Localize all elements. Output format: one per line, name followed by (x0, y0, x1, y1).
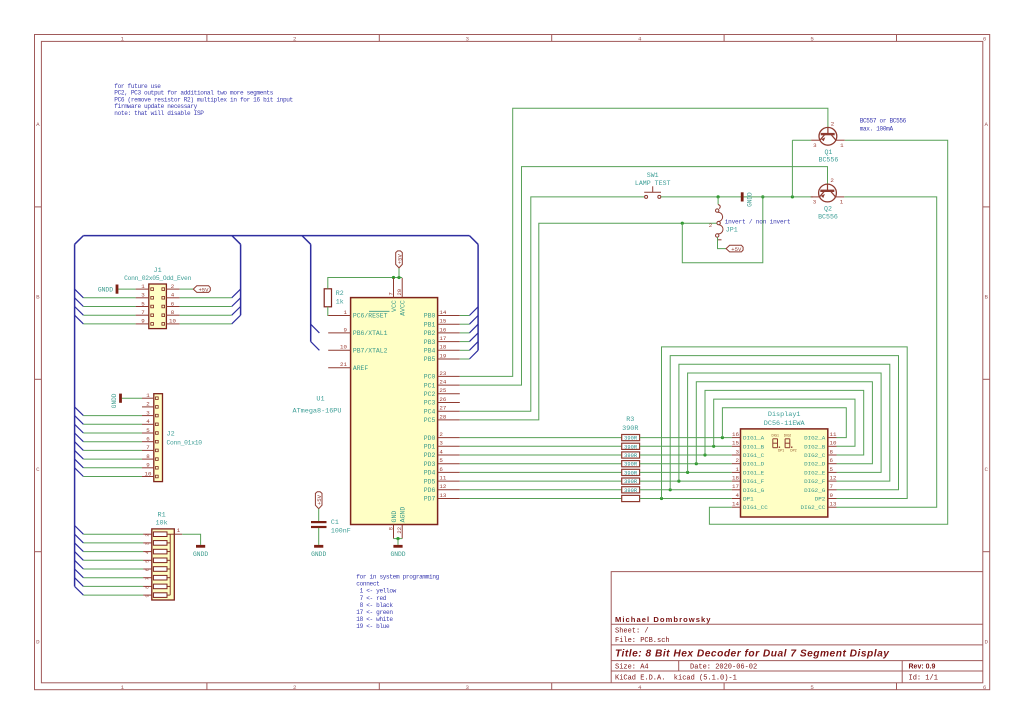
svg-text:3: 3 (141, 292, 145, 299)
svg-text:DIG2_G: DIG2_G (804, 487, 826, 494)
svg-text:18 <- white: 18 <- white (356, 616, 393, 623)
svg-text:PB1: PB1 (424, 321, 436, 328)
svg-text:8: 8 (146, 453, 150, 460)
svg-text:390R: 390R (624, 488, 638, 494)
svg-text:390R: 390R (624, 444, 638, 450)
svg-text:+5V: +5V (198, 286, 209, 293)
svg-text:4: 4 (638, 36, 642, 43)
svg-text:DP1: DP1 (778, 449, 784, 453)
svg-text:6: 6 (830, 457, 834, 464)
svg-text:Size: A4: Size: A4 (615, 663, 649, 671)
svg-text:12: 12 (439, 483, 446, 490)
svg-text:AVCC: AVCC (400, 300, 407, 316)
svg-text:9: 9 (830, 492, 834, 499)
svg-text:PB6/XTAL1: PB6/XTAL1 (353, 330, 388, 337)
svg-text:Conn_01x10: Conn_01x10 (167, 439, 203, 446)
svg-text:19 <- blue: 19 <- blue (356, 623, 390, 630)
svg-text:1: 1 (177, 527, 181, 534)
svg-text:26: 26 (439, 396, 446, 403)
svg-text:GNDD: GNDD (311, 551, 326, 558)
svg-text:390R: 390R (624, 479, 638, 485)
svg-text:28: 28 (439, 413, 446, 420)
svg-text:PB3: PB3 (424, 339, 436, 346)
svg-text:J1: J1 (154, 267, 162, 275)
svg-text:8: 8 (387, 527, 394, 530)
svg-text:3: 3 (813, 199, 817, 206)
svg-text:DIG2_F: DIG2_F (804, 478, 826, 485)
svg-text:R3: R3 (626, 416, 634, 424)
svg-text:24: 24 (439, 379, 446, 386)
svg-text:7: 7 (145, 577, 151, 580)
svg-text:7: 7 (830, 483, 834, 490)
svg-text:4: 4 (439, 448, 443, 455)
svg-text:10: 10 (169, 318, 176, 325)
svg-text:10k: 10k (155, 520, 167, 528)
svg-text:9: 9 (146, 462, 150, 469)
svg-text:5: 5 (810, 36, 814, 43)
svg-text:PB5: PB5 (424, 356, 436, 363)
svg-text:22: 22 (396, 527, 403, 534)
svg-text:2: 2 (293, 36, 297, 43)
svg-text:PC3: PC3 (424, 400, 436, 407)
svg-text:11: 11 (830, 431, 837, 438)
svg-text:Conn_02x05_Odd_Even: Conn_02x05_Odd_Even (124, 275, 192, 282)
svg-text:17 <- green: 17 <- green (356, 609, 393, 616)
svg-text:PB4: PB4 (424, 348, 436, 355)
svg-text:DIG1_C: DIG1_C (743, 452, 765, 459)
svg-text:Q2: Q2 (824, 206, 832, 213)
svg-text:SW1: SW1 (647, 172, 659, 179)
svg-text:10: 10 (145, 470, 152, 477)
svg-text:2: 2 (146, 401, 150, 408)
svg-text:C: C (984, 466, 988, 473)
svg-text:PB7/XTAL2: PB7/XTAL2 (353, 348, 388, 355)
svg-text:6: 6 (439, 466, 443, 473)
svg-text:PD7: PD7 (424, 496, 436, 503)
svg-text:9: 9 (145, 594, 151, 597)
svg-text:DIG2_CC: DIG2_CC (801, 504, 826, 511)
svg-text:DIG1_D: DIG1_D (743, 461, 765, 468)
svg-text:+5V: +5V (316, 494, 323, 505)
svg-text:DP2: DP2 (815, 496, 826, 503)
svg-text:PB0: PB0 (424, 313, 436, 320)
svg-text:AGND: AGND (400, 507, 407, 523)
svg-text:18: 18 (439, 344, 446, 351)
svg-text:Date: 2020-06-02: Date: 2020-06-02 (690, 663, 757, 671)
svg-text:1: 1 (736, 466, 740, 473)
svg-text:DIG2_C: DIG2_C (804, 452, 826, 459)
svg-text:GNDD: GNDD (390, 551, 405, 558)
svg-text:3: 3 (465, 684, 469, 691)
svg-text:Rev: 0.9: Rev: 0.9 (909, 663, 936, 670)
svg-text:15: 15 (732, 440, 739, 447)
svg-text:connect: connect (356, 581, 380, 588)
svg-text:+5V: +5V (396, 254, 403, 265)
svg-text:9: 9 (344, 326, 348, 333)
svg-text:6: 6 (171, 300, 175, 307)
svg-text:B: B (984, 294, 988, 301)
svg-text:3: 3 (145, 542, 151, 545)
svg-text:10: 10 (340, 344, 347, 351)
svg-text:8: 8 (145, 586, 151, 589)
svg-text:3: 3 (813, 142, 817, 149)
svg-text:5: 5 (439, 457, 443, 464)
svg-text:GNDD: GNDD (193, 551, 208, 558)
svg-text:21: 21 (340, 361, 347, 368)
svg-text:11: 11 (439, 475, 446, 482)
svg-text:8 <- black: 8 <- black (356, 602, 393, 609)
svg-text:1: 1 (344, 309, 348, 316)
svg-text:GNDD: GNDD (111, 393, 118, 408)
svg-text:9: 9 (141, 318, 145, 325)
svg-text:Id: 1/1: Id: 1/1 (909, 675, 938, 683)
svg-text:Q1: Q1 (824, 149, 832, 156)
svg-text:390R: 390R (624, 453, 638, 459)
svg-text:DP2: DP2 (790, 449, 796, 453)
svg-text:invert / non invert: invert / non invert (725, 219, 791, 226)
svg-text:for in system programming: for in system programming (356, 574, 439, 581)
svg-text:BC557 or BC556: BC557 or BC556 (860, 118, 907, 125)
svg-text:6: 6 (146, 436, 150, 443)
svg-text:DC56-11EWA: DC56-11EWA (764, 420, 806, 428)
svg-text:Sheet: /: Sheet: / (615, 628, 649, 636)
svg-text:DIG2_D: DIG2_D (804, 461, 826, 468)
svg-text:5: 5 (810, 684, 814, 691)
svg-text:1: 1 (840, 199, 844, 206)
svg-text:1: 1 (121, 36, 125, 43)
svg-text:DP1: DP1 (743, 496, 754, 503)
svg-text:PD6: PD6 (424, 487, 436, 494)
svg-text:14: 14 (732, 501, 739, 508)
svg-text:25: 25 (439, 387, 446, 394)
svg-text:DIG1_B: DIG1_B (743, 443, 765, 450)
svg-text:DIG2_A: DIG2_A (804, 435, 826, 442)
svg-text:1: 1 (141, 283, 145, 290)
svg-text:6: 6 (145, 568, 151, 571)
svg-text:DIG2: DIG2 (784, 433, 792, 437)
svg-text:A: A (36, 121, 40, 128)
svg-text:VCC: VCC (391, 300, 398, 312)
svg-text:12: 12 (830, 475, 837, 482)
svg-text:390R: 390R (622, 425, 638, 433)
svg-text:2: 2 (145, 534, 151, 537)
svg-text:GND: GND (391, 511, 398, 523)
svg-text:DIG1_G: DIG1_G (743, 487, 765, 494)
svg-text:PD3: PD3 (424, 461, 436, 468)
svg-text:PC5: PC5 (424, 417, 436, 424)
svg-text:2: 2 (171, 283, 175, 290)
svg-text:KiCad E.D.A. kicad (5.1.0)-1: KiCad E.D.A. kicad (5.1.0)-1 (615, 675, 737, 683)
svg-text:DIG1_E: DIG1_E (743, 469, 765, 476)
svg-text:18: 18 (732, 475, 739, 482)
svg-text:23: 23 (439, 370, 446, 377)
svg-text:7: 7 (387, 292, 394, 295)
svg-text:5: 5 (146, 427, 150, 434)
svg-text:DIG1_CC: DIG1_CC (743, 504, 768, 511)
svg-text:J2: J2 (167, 431, 175, 439)
svg-text:4: 4 (736, 492, 740, 499)
svg-text:LAMP TEST: LAMP TEST (635, 180, 671, 187)
svg-text:3: 3 (736, 448, 740, 455)
svg-text:1: 1 (121, 684, 125, 691)
svg-text:7: 7 (146, 444, 150, 451)
svg-text:2: 2 (439, 431, 443, 438)
svg-text:5: 5 (830, 466, 834, 473)
svg-text:10: 10 (830, 440, 837, 447)
svg-text:JP1: JP1 (726, 227, 738, 234)
svg-text:PD1: PD1 (424, 444, 436, 451)
svg-text:Michael Dombrowsky: Michael Dombrowsky (615, 615, 712, 624)
svg-text:Title: 8 Bit Hex Decoder for D: Title: 8 Bit Hex Decoder for Dual 7 Segm… (615, 648, 890, 659)
svg-text:C1: C1 (331, 519, 339, 526)
svg-text:DIG1_F: DIG1_F (743, 478, 765, 485)
svg-text:8: 8 (171, 309, 175, 316)
svg-text:BC556: BC556 (819, 157, 839, 164)
svg-text:4: 4 (145, 551, 151, 554)
svg-text:+5V: +5V (731, 246, 742, 253)
svg-text:390R: 390R (624, 436, 638, 442)
svg-text:PC1: PC1 (424, 382, 436, 389)
svg-text:20: 20 (396, 289, 403, 296)
svg-text:PC0: PC0 (424, 374, 436, 381)
svg-text:27: 27 (439, 405, 446, 412)
svg-text:A: A (984, 121, 988, 128)
svg-text:BC556: BC556 (818, 213, 838, 220)
svg-text:C: C (36, 466, 40, 473)
svg-text:3: 3 (146, 409, 150, 416)
svg-text:DIG2_E: DIG2_E (804, 469, 826, 476)
svg-text:PB2: PB2 (424, 330, 436, 337)
svg-text:ATmega8-16PU: ATmega8-16PU (293, 407, 342, 415)
svg-text:7: 7 (141, 309, 145, 316)
svg-text:7 <- red: 7 <- red (356, 595, 386, 602)
svg-text:14: 14 (439, 309, 446, 316)
svg-text:16: 16 (439, 326, 446, 333)
svg-text:DIG1_A: DIG1_A (743, 435, 765, 442)
svg-text:Display1: Display1 (768, 411, 801, 419)
svg-text:17: 17 (732, 483, 739, 490)
svg-text:PD5: PD5 (424, 478, 436, 485)
svg-text:1: 1 (146, 392, 150, 399)
svg-text:15: 15 (439, 318, 446, 325)
svg-text:GNDD: GNDD (98, 286, 113, 293)
svg-text:PD0: PD0 (424, 435, 436, 442)
svg-text:note: that will disable ISP: note: that will disable ISP (114, 110, 204, 117)
svg-text:5: 5 (141, 300, 145, 307)
svg-text:PD4: PD4 (424, 470, 436, 477)
svg-text:max. 100mA: max. 100mA (860, 125, 894, 132)
svg-text:2: 2 (293, 684, 297, 691)
svg-text:File: PCB.sch: File: PCB.sch (615, 637, 670, 645)
svg-text:1k: 1k (336, 299, 344, 306)
svg-text:6: 6 (983, 684, 987, 691)
svg-text:4: 4 (171, 292, 175, 299)
svg-text:1 <- yellow: 1 <- yellow (356, 588, 396, 595)
svg-text:2: 2 (709, 222, 713, 229)
svg-text:6: 6 (983, 36, 987, 43)
svg-text:3: 3 (465, 36, 469, 43)
svg-text:4: 4 (146, 418, 150, 425)
svg-text:13: 13 (830, 501, 837, 508)
svg-text:PC2: PC2 (424, 391, 436, 398)
svg-text:2: 2 (831, 120, 835, 127)
svg-text:2: 2 (736, 457, 740, 464)
svg-text:1: 1 (840, 142, 844, 149)
svg-text:PD2: PD2 (424, 452, 436, 459)
svg-text:U1: U1 (316, 395, 324, 403)
svg-text:PC4: PC4 (424, 408, 436, 415)
svg-text:PC6/RESET: PC6/RESET (353, 313, 388, 320)
svg-text:5: 5 (145, 560, 151, 563)
svg-text:13: 13 (439, 492, 446, 499)
svg-text:390R: 390R (624, 462, 638, 468)
svg-text:B: B (36, 294, 40, 301)
svg-text:4: 4 (638, 684, 642, 691)
svg-text:D: D (984, 638, 988, 645)
svg-text:R2: R2 (336, 290, 344, 297)
svg-text:19: 19 (439, 352, 446, 359)
svg-text:390R: 390R (624, 470, 638, 476)
svg-text:17: 17 (439, 335, 446, 342)
svg-text:2: 2 (830, 177, 834, 184)
svg-text:DIG1: DIG1 (771, 433, 779, 437)
svg-text:100nF: 100nF (331, 528, 351, 535)
svg-text:16: 16 (732, 431, 739, 438)
svg-text:D: D (36, 638, 40, 645)
svg-text:3: 3 (439, 440, 443, 447)
svg-text:8: 8 (830, 448, 834, 455)
svg-text:AREF: AREF (353, 365, 369, 372)
svg-text:GNDD: GNDD (747, 192, 754, 207)
svg-text:R1: R1 (158, 511, 166, 519)
svg-text:DIG2_B: DIG2_B (804, 443, 826, 450)
